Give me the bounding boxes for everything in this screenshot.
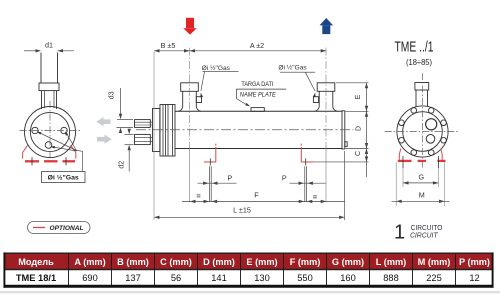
svg-text:B (mm): B (mm) xyxy=(117,257,149,267)
svg-text:TME 18/1: TME 18/1 xyxy=(16,273,56,283)
svg-text:160: 160 xyxy=(340,273,356,283)
svg-text:G (mm): G (mm) xyxy=(332,257,364,267)
svg-text:NAME PLATE: NAME PLATE xyxy=(240,92,276,99)
svg-text:Øi ½"Gas: Øi ½"Gas xyxy=(48,173,79,181)
svg-text:d1: d1 xyxy=(45,41,53,50)
svg-text:M (mm): M (mm) xyxy=(418,257,451,267)
svg-text:1: 1 xyxy=(394,222,405,244)
svg-text:(18÷85): (18÷85) xyxy=(406,58,432,67)
svg-text:Øi ½"Gas: Øi ½"Gas xyxy=(278,63,307,71)
svg-text:C: C xyxy=(355,151,362,156)
svg-text:225: 225 xyxy=(426,273,442,283)
svg-text:12: 12 xyxy=(469,273,479,283)
svg-text:D (mm): D (mm) xyxy=(203,257,235,267)
svg-text:CIRCUIT: CIRCUIT xyxy=(410,233,438,240)
svg-text:E (mm): E (mm) xyxy=(246,257,277,267)
svg-text:TARGA DATI: TARGA DATI xyxy=(241,81,273,88)
svg-text:690: 690 xyxy=(82,273,98,283)
svg-text:d3: d3 xyxy=(108,91,115,99)
svg-text:137: 137 xyxy=(125,273,141,283)
svg-text:F (mm): F (mm) xyxy=(290,257,321,267)
svg-text:TME ../1: TME ../1 xyxy=(395,39,434,56)
svg-text:C (mm): C (mm) xyxy=(160,257,192,267)
svg-text:F: F xyxy=(254,190,259,199)
svg-text:888: 888 xyxy=(383,273,399,283)
svg-text:P: P xyxy=(227,173,232,182)
svg-text:B ±5: B ±5 xyxy=(161,41,176,50)
svg-text:Модель: Модель xyxy=(18,257,54,267)
svg-text:D: D xyxy=(356,126,363,131)
svg-text:L (mm): L (mm) xyxy=(376,257,406,267)
svg-text:130: 130 xyxy=(254,273,270,283)
svg-text:d2: d2 xyxy=(119,161,126,169)
svg-text:=: = xyxy=(313,192,318,201)
svg-text:CIRCUITO: CIRCUITO xyxy=(411,225,443,232)
svg-text:M: M xyxy=(419,191,425,200)
svg-text:56: 56 xyxy=(171,273,181,283)
svg-text:P: P xyxy=(282,173,287,182)
svg-text:L ±15: L ±15 xyxy=(233,205,251,214)
svg-text:A (mm): A (mm) xyxy=(74,257,105,267)
svg-text:550: 550 xyxy=(297,273,313,283)
svg-text:141: 141 xyxy=(211,273,227,283)
svg-text:A ±2: A ±2 xyxy=(250,41,264,50)
svg-text:Øi ½"Gas: Øi ½"Gas xyxy=(202,64,231,72)
svg-text:OPTIONAL: OPTIONAL xyxy=(50,225,84,232)
svg-text:=: = xyxy=(196,191,201,200)
svg-text:G: G xyxy=(419,173,425,182)
svg-text:P (mm): P (mm) xyxy=(459,257,490,267)
svg-text:E: E xyxy=(355,94,362,99)
